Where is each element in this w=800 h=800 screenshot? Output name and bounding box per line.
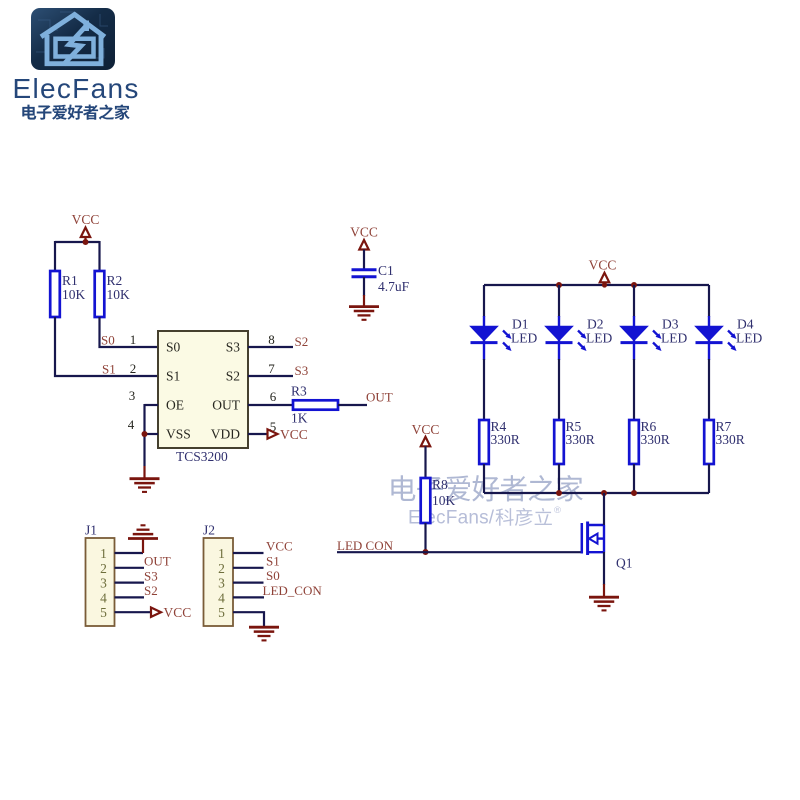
wire OE/VSS to ground	[143, 404, 145, 466]
svg-text:VCC: VCC	[72, 212, 100, 227]
svg-text:4: 4	[100, 590, 107, 605]
svg-text:OUT: OUT	[144, 554, 171, 569]
ground inverted (J1 pin1)	[128, 525, 158, 553]
wire net S1	[55, 317, 158, 376]
wire R4 bottom	[483, 464, 485, 493]
wire R7 bottom	[708, 464, 710, 493]
svg-text:S0: S0	[266, 568, 280, 583]
wire VSS stub	[145, 433, 159, 435]
wire D3 cathode	[633, 359, 635, 420]
wire pin5	[248, 433, 267, 435]
wire anode D3	[633, 285, 635, 317]
wire pin7	[248, 375, 293, 377]
svg-text:VDD: VDD	[211, 427, 240, 442]
wire J2 pin2	[233, 567, 264, 569]
junction dot VSS	[142, 431, 148, 437]
svg-text:LED: LED	[736, 331, 762, 346]
svg-text:4: 4	[218, 590, 225, 605]
ground (C1)	[349, 295, 379, 320]
svg-text:Q1: Q1	[616, 556, 633, 571]
resistor R2 10K	[95, 271, 130, 317]
svg-text:S3: S3	[144, 568, 158, 583]
svg-text:1K: 1K	[291, 411, 308, 426]
resistor R3 1K	[291, 384, 338, 426]
wire D1 cathode	[483, 359, 485, 420]
svg-text:330R: 330R	[566, 432, 595, 447]
svg-text:1: 1	[130, 332, 137, 347]
svg-text:1: 1	[218, 546, 225, 561]
LED D1	[471, 327, 512, 361]
ground (J2 pin5)	[249, 627, 279, 640]
svg-text:LED CON: LED CON	[337, 538, 394, 553]
LED D3	[621, 327, 662, 361]
wire Q1 drain	[603, 493, 605, 525]
wire OE stub	[145, 404, 159, 406]
LED D4	[696, 327, 737, 361]
svg-text:VCC: VCC	[266, 539, 293, 554]
svg-text:S2: S2	[226, 369, 240, 384]
junction dot rail D2	[556, 282, 562, 288]
watermark	[391, 475, 582, 502]
svg-text:R3: R3	[291, 384, 307, 399]
svg-text:LED_CON: LED_CON	[263, 583, 323, 598]
svg-text:8: 8	[268, 332, 275, 347]
svg-text:VCC: VCC	[280, 427, 308, 442]
svg-text:7: 7	[268, 361, 275, 376]
transistor Q1 (NMOS)	[582, 522, 604, 556]
resistor R7 330R	[704, 419, 745, 464]
svg-text:5: 5	[218, 605, 225, 620]
wire anode D2	[558, 285, 560, 317]
ground (Q1)	[589, 584, 619, 610]
wire J1 pin3	[115, 581, 145, 583]
wire D4 cathode	[708, 359, 710, 420]
svg-text:S1: S1	[166, 369, 180, 384]
wire anode D1	[483, 285, 485, 317]
wire LED top rail	[484, 284, 709, 286]
junction dot rail VCC	[602, 282, 607, 287]
svg-text:J2: J2	[203, 523, 215, 538]
svg-text:1: 1	[100, 546, 107, 561]
power VCC (LED rail)	[589, 258, 617, 286]
LED D2	[546, 327, 587, 361]
resistor R4 330R	[479, 419, 520, 464]
wire C1 to ground	[363, 277, 365, 296]
svg-text:D3: D3	[662, 317, 679, 332]
wire J1 pin2	[115, 567, 145, 569]
connector J1 body	[86, 538, 115, 626]
wire VCC rail	[55, 241, 100, 243]
svg-text:LED: LED	[661, 331, 687, 346]
svg-text:VCC: VCC	[589, 258, 617, 273]
power VCC (R8)	[412, 422, 440, 478]
junction dot bottom drain	[601, 490, 607, 496]
svg-text:OE: OE	[166, 398, 184, 413]
resistor R6 330R	[629, 419, 670, 464]
wire J2 pin5	[233, 612, 264, 627]
junction dot VCC rail	[83, 239, 89, 245]
wire R6 bottom	[633, 464, 635, 493]
wire Q1 source	[603, 552, 605, 585]
svg-text:OUT: OUT	[212, 398, 240, 413]
svg-text:S0: S0	[166, 340, 181, 355]
wire R5 bottom	[558, 464, 560, 493]
power VCC (VDD pin)	[268, 427, 308, 442]
wire J2 pin1	[233, 552, 264, 554]
svg-text:330R: 330R	[491, 432, 520, 447]
svg-text:S0: S0	[101, 333, 115, 348]
wire net S0	[100, 317, 159, 347]
svg-text:10K: 10K	[62, 287, 86, 302]
resistor R8 10K	[421, 477, 456, 523]
svg-text:R8: R8	[432, 477, 448, 492]
svg-text:R1: R1	[62, 273, 78, 288]
svg-text:330R: 330R	[716, 432, 745, 447]
wire OUT	[338, 404, 367, 406]
svg-text:3: 3	[129, 388, 136, 403]
svg-text:R2: R2	[107, 273, 123, 288]
power VCC (R1/R2 rail)	[72, 212, 100, 242]
wire anode D4	[708, 285, 710, 317]
svg-text:VCC: VCC	[164, 605, 192, 620]
svg-text:S3: S3	[295, 363, 309, 378]
svg-text:S2: S2	[295, 334, 309, 349]
svg-text:J1: J1	[85, 523, 97, 538]
svg-text:330R: 330R	[641, 432, 670, 447]
wire pin6	[248, 404, 293, 406]
svg-text:LED: LED	[586, 331, 612, 346]
svg-text:OUT: OUT	[366, 390, 393, 405]
svg-text:2: 2	[218, 561, 225, 576]
svg-text:6: 6	[270, 389, 277, 404]
ground (U1 VSS)	[130, 466, 160, 492]
svg-text:3: 3	[100, 576, 107, 591]
svg-text:S1: S1	[102, 362, 116, 377]
wire R8 bottom	[424, 523, 426, 552]
wire J2 pin3	[233, 581, 264, 583]
power VCC (J1 pin5)	[151, 605, 191, 620]
svg-text:10K: 10K	[107, 287, 131, 302]
svg-text:D4: D4	[737, 317, 754, 332]
svg-text:4.7uF: 4.7uF	[378, 279, 410, 294]
svg-text:C1: C1	[378, 263, 394, 278]
wire D2 cathode	[558, 359, 560, 420]
svg-text:®: ®	[554, 505, 561, 516]
connector J2 body	[204, 538, 234, 626]
junction dot bottom R5	[556, 490, 562, 496]
wire R2 top	[98, 241, 100, 271]
svg-text:VCC: VCC	[350, 225, 378, 240]
junction dot LED_CON	[423, 549, 429, 555]
svg-text:ElecFans: ElecFans	[13, 73, 140, 104]
op-amp U1 TCS3200 body	[158, 331, 248, 448]
wire J2 pin4	[233, 596, 264, 598]
svg-text:D2: D2	[587, 317, 604, 332]
svg-text:S3: S3	[226, 340, 241, 355]
wire J1 pin1	[115, 552, 144, 554]
logo ElecFans	[31, 8, 115, 70]
svg-text:VSS: VSS	[166, 427, 191, 442]
svg-text:D1: D1	[512, 317, 529, 332]
resistor R5 330R	[554, 419, 595, 464]
wire LED bottom rail	[484, 492, 709, 494]
wire J1 pin4	[115, 596, 145, 598]
svg-text:S1: S1	[266, 553, 280, 568]
capacitor C1 4.7uF	[352, 263, 410, 294]
svg-text:10K: 10K	[432, 493, 456, 508]
wire R1 top	[54, 241, 56, 271]
svg-text:TCS3200: TCS3200	[176, 449, 228, 464]
power VCC (C1)	[350, 225, 378, 270]
wire pin8	[248, 346, 293, 348]
svg-text:3: 3	[218, 576, 225, 591]
svg-text:5: 5	[100, 605, 107, 620]
junction dot rail D3	[631, 282, 637, 288]
svg-text:4: 4	[128, 417, 135, 432]
svg-text:2: 2	[130, 361, 137, 376]
wire LED_CON	[337, 551, 581, 553]
resistor R1 10K	[50, 271, 85, 317]
svg-text:2: 2	[100, 561, 107, 576]
svg-text:LED: LED	[511, 331, 537, 346]
svg-text:S2: S2	[144, 583, 158, 598]
wire J1 pin5	[115, 611, 151, 613]
junction dot bottom R6	[631, 490, 637, 496]
